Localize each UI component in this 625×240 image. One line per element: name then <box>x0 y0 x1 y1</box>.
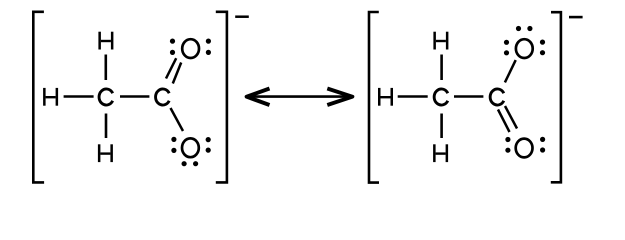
atom O bottom (single bonded) <box>182 138 199 157</box>
lone pair dots left of bottom O <box>171 137 176 142</box>
single bond C2-O bottom <box>171 108 184 131</box>
double bond C2=O bottom, line 1 <box>498 110 510 133</box>
bond C1-H bottom <box>440 114 443 139</box>
atom H top <box>435 32 448 50</box>
bond C1-C2 <box>454 95 483 98</box>
bond C1-H bottom <box>105 114 108 139</box>
atom H top <box>100 32 113 50</box>
left structure: acetate resonance form 1 <box>33 12 249 183</box>
atom H bottom <box>434 144 447 162</box>
lone pair dots below bottom O <box>182 161 187 166</box>
bond H-C1 <box>64 95 94 98</box>
resonance double-headed arrow <box>247 89 353 106</box>
left bracket of structure 1 <box>33 12 44 183</box>
lone pair dots right of bottom O <box>540 137 545 142</box>
arrow head right <box>327 89 352 106</box>
atom C1 <box>434 89 448 105</box>
bond H-C1 <box>398 95 428 98</box>
lone pair dots right of bottom O <box>206 137 211 142</box>
atom O bottom (double bonded) <box>516 139 533 158</box>
lone pair dots left of bottom O <box>505 137 510 142</box>
single bond C2-O top <box>505 60 516 82</box>
right structure: acetate resonance form 2 <box>369 12 583 183</box>
arrow head left <box>247 89 270 106</box>
left bracket of structure 2 <box>369 12 379 183</box>
double bond C2=O top, line 2 <box>173 63 181 84</box>
lone pair dots above top O <box>516 26 521 31</box>
double bond C2=O bottom, line 2 <box>505 106 517 129</box>
atom C2 <box>156 89 170 105</box>
right bracket of structure 1 <box>216 12 227 183</box>
bond C1-C2 <box>120 95 149 98</box>
atom C1 <box>99 89 113 105</box>
right bracket of structure 2 <box>551 12 561 182</box>
negative charge superscript of structure 2 <box>569 16 583 19</box>
atom H left <box>44 88 57 106</box>
lone pair dots left of top O <box>170 39 175 44</box>
double bond C2=O top, line 1 <box>166 58 176 78</box>
lone pair dots right of top O <box>206 39 211 44</box>
atom H left <box>379 88 392 106</box>
arrow shaft <box>250 95 349 98</box>
atom O top (single bonded) <box>516 39 533 58</box>
bond C1-H top <box>105 55 108 81</box>
negative charge superscript of structure 1 <box>235 15 249 18</box>
lone pair dots left of top O <box>504 40 509 45</box>
lone pair dots right of top O <box>540 40 545 45</box>
atom O top (double bonded) <box>182 39 199 58</box>
atom H bottom <box>99 144 112 162</box>
bond C1-H top <box>440 55 443 81</box>
atom C2 <box>490 89 504 105</box>
